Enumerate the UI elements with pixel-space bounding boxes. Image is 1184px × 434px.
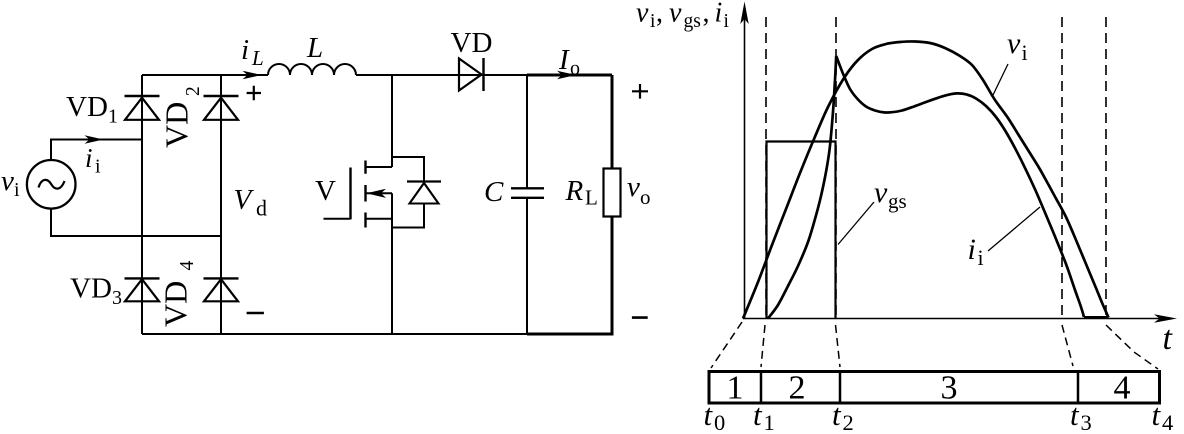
svg-text:2: 2 (183, 86, 204, 96)
svg-text:i: i (715, 0, 723, 29)
svg-text:3: 3 (1081, 410, 1092, 434)
svg-text:1: 1 (764, 410, 775, 434)
svg-text:t: t (1070, 397, 1080, 432)
svg-text:4: 4 (1162, 410, 1173, 434)
svg-text:gs: gs (684, 11, 701, 32)
svg-text:i: i (14, 179, 20, 201)
svg-text:,: , (656, 0, 663, 29)
svg-text:3: 3 (112, 287, 122, 309)
svg-text:t: t (1152, 397, 1162, 432)
svg-text:i: i (724, 11, 730, 32)
svg-text:o: o (570, 58, 580, 80)
svg-text:C: C (484, 176, 504, 208)
svg-text:VD: VD (66, 91, 108, 123)
svg-text:i: i (1022, 40, 1028, 65)
svg-text:0: 0 (714, 410, 725, 434)
svg-text:VD: VD (158, 281, 194, 327)
svg-text:VD: VD (70, 273, 112, 305)
svg-text:R: R (565, 175, 584, 207)
svg-text:1: 1 (108, 106, 118, 128)
svg-text:o: o (640, 185, 651, 209)
svg-text:gs: gs (888, 189, 907, 213)
svg-text:2: 2 (789, 370, 806, 407)
svg-text:1: 1 (727, 370, 744, 407)
svg-text:4: 4 (177, 261, 198, 271)
svg-text:,: , (703, 0, 710, 29)
svg-text:v: v (1007, 27, 1021, 60)
svg-text:v: v (874, 176, 888, 209)
svg-text:2: 2 (843, 410, 854, 434)
svg-text:t: t (704, 397, 714, 432)
svg-text:v: v (636, 0, 649, 29)
svg-text:t: t (832, 397, 842, 432)
svg-text:i: i (978, 245, 984, 270)
svg-text:i: i (241, 34, 249, 66)
svg-text:L: L (585, 186, 598, 210)
svg-text:v: v (627, 171, 640, 203)
svg-text:v: v (669, 0, 682, 29)
svg-text:d: d (256, 196, 267, 221)
svg-text:i: i (968, 233, 976, 266)
svg-text:t: t (1163, 320, 1174, 357)
svg-text:i: i (85, 143, 93, 173)
svg-text:v: v (1, 165, 14, 197)
svg-text:I: I (558, 44, 570, 76)
svg-text:4: 4 (1114, 370, 1131, 407)
svg-text:VD: VD (159, 102, 195, 148)
svg-text:3: 3 (941, 370, 958, 407)
svg-text:L: L (251, 46, 264, 70)
svg-text:i: i (95, 156, 101, 178)
svg-text:t: t (753, 397, 763, 432)
svg-text:V: V (315, 175, 336, 207)
svg-text:VD: VD (451, 27, 493, 59)
svg-text:L: L (306, 32, 323, 64)
